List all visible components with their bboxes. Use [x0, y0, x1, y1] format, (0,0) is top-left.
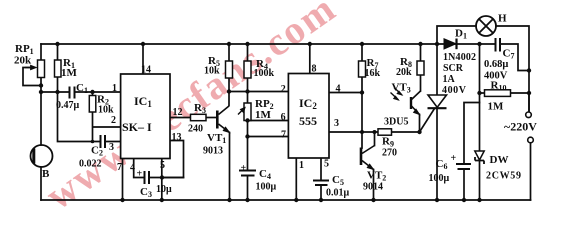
- wire: DW line from rail down: [479, 44, 481, 200]
- svg-text:7: 7: [117, 162, 122, 173]
- svg-text:240: 240: [188, 124, 203, 135]
- wire: C1 right to IC1 pin1: [75, 91, 121, 93]
- wire: R1 drop from rail: [57, 44, 59, 60]
- svg-text:~220V: ~220V: [504, 120, 537, 134]
- transistor VT2: [361, 146, 375, 170]
- svg-text:SK– I: SK– I: [122, 120, 152, 134]
- wire: VT2 emitter vertical to ground: [373, 170, 375, 201]
- transistor VT1: [217, 106, 229, 133]
- wire: RP1 wiper L-link: [23, 68, 41, 86]
- svg-text:0.01μ: 0.01μ: [326, 188, 350, 199]
- capacitor C3: [145, 171, 150, 184]
- resistor R1: [55, 60, 62, 77]
- wire: IC2 pin6 line: [248, 120, 289, 122]
- potentiometer RP2: [244, 103, 251, 121]
- svg-text:+: +: [137, 169, 143, 180]
- wire: IC1 pin13 loop to C3 node: [162, 141, 184, 178]
- wire: bottom ground rail: [41, 199, 531, 201]
- svg-text:555: 555: [299, 114, 317, 128]
- svg-text:0.022: 0.022: [79, 159, 102, 170]
- wire: IC1 pin5 down to C3 node and ground: [161, 159, 163, 201]
- wire: lamp right to down line: [496, 26, 529, 112]
- svg-text:5: 5: [160, 160, 165, 171]
- wire: R9 right to gate node: [392, 131, 420, 133]
- SCR V: [428, 95, 447, 108]
- wire: VT1 emitter down to ground: [229, 133, 231, 201]
- wire: SCR gate lead: [420, 109, 435, 133]
- resistor R3: [191, 114, 207, 120]
- svg-text:16k: 16k: [365, 68, 381, 79]
- capacitor C6: [456, 164, 471, 169]
- mains terminal upper: [526, 112, 532, 118]
- wire: IC2 pin4 to R7 line: [329, 92, 362, 94]
- svg-text:+: +: [241, 163, 247, 174]
- phototransistor VT3: [391, 88, 421, 115]
- svg-text:270: 270: [382, 148, 397, 159]
- wire: IC2 pin7 line: [248, 136, 289, 138]
- svg-text:100μ: 100μ: [429, 173, 450, 184]
- svg-text:1M: 1M: [488, 101, 505, 113]
- svg-text:SCR: SCR: [443, 63, 464, 74]
- IC2 box: [288, 74, 329, 159]
- resistor R9: [378, 129, 392, 135]
- wire: R8 drop from rail: [420, 44, 422, 61]
- wire: SCR cathode to ground: [436, 108, 438, 200]
- svg-text:7: 7: [281, 130, 286, 141]
- wire: top supply rail: [41, 43, 496, 45]
- svg-text:1N4002: 1N4002: [443, 52, 476, 63]
- wire: R8 bottom to VT3: [420, 75, 422, 91]
- wire: RP1 bottom lead down to mic node: [40, 78, 42, 146]
- wire: SCR anode from rail: [436, 44, 438, 95]
- svg-text:12: 12: [173, 107, 183, 118]
- svg-text:100μ: 100μ: [256, 182, 277, 193]
- svg-text:5: 5: [324, 159, 329, 170]
- svg-text:9013: 9013: [203, 146, 223, 157]
- wire: IC1 pin12 to R3: [170, 117, 191, 119]
- lamp H: [476, 16, 496, 36]
- wire: IC2 pin1 to ground: [295, 158, 297, 200]
- svg-text:20k: 20k: [14, 55, 32, 67]
- IC1 box: [121, 74, 170, 159]
- light arrows into VT3: [394, 88, 402, 96]
- svg-text:3DU5: 3DU5: [384, 117, 408, 128]
- svg-text:+: +: [451, 153, 457, 164]
- svg-text:0.47μ: 0.47μ: [56, 100, 80, 111]
- wire: rail right of C7 with dogleg down to lamp line: [500, 44, 529, 71]
- svg-text:20k: 20k: [396, 67, 412, 78]
- wire: RP1 top lead from rail corner: [40, 44, 42, 60]
- resistor R10: [485, 90, 511, 97]
- svg-text:8: 8: [312, 64, 317, 75]
- potentiometer RP1: [38, 60, 45, 78]
- wire: branch from signal node down to C2 line: [58, 92, 101, 142]
- wire: VT3 emitter down to gate node: [419, 115, 421, 133]
- wire: IC2 pin8 from rail: [309, 44, 311, 74]
- svg-text:10k: 10k: [98, 105, 114, 116]
- wire: IC2 pin5 through C5 to ground: [320, 158, 322, 200]
- wire: mic bottom lead to ground rail: [40, 167, 42, 200]
- wire: R1 bottom to signal line: [57, 77, 59, 92]
- wire: R7 line rail to VT2 base: [361, 44, 363, 148]
- wire: lamp branch up and across: [437, 26, 476, 44]
- wire: C6 bottom to ground: [463, 169, 465, 200]
- capacitor C4: [239, 171, 256, 176]
- capacitor C5: [313, 181, 329, 186]
- svg-text:100k: 100k: [254, 68, 275, 79]
- wire: C6 tap from DW line: [464, 103, 480, 165]
- capacitor C1: [70, 87, 75, 99]
- wire: R2 bottom to IC1 pin2 and down to C2 line: [93, 112, 121, 142]
- svg-text:3: 3: [109, 142, 114, 153]
- wire: IC1 pin4 down to C3 left: [134, 159, 145, 178]
- resistor R4: [244, 61, 251, 78]
- resistor R8: [417, 61, 424, 75]
- svg-text:0.68μ: 0.68μ: [484, 59, 508, 70]
- wire: upper mains terminal lead: [528, 93, 530, 112]
- svg-text:4: 4: [130, 163, 135, 174]
- wire: lower mains terminal to ground rail: [530, 143, 532, 200]
- svg-text:1M: 1M: [61, 67, 78, 79]
- svg-text:13: 13: [172, 132, 182, 143]
- diode D1: [444, 39, 457, 50]
- wire: R10 line: [480, 92, 530, 94]
- wire: VT2 collector vertical: [374, 132, 376, 146]
- svg-text:10k: 10k: [204, 66, 220, 77]
- svg-text:6: 6: [281, 112, 286, 123]
- svg-text:2: 2: [111, 115, 116, 126]
- resistor R7: [359, 61, 366, 77]
- RP2 wiper arrow: [238, 107, 245, 114]
- svg-text:2CW59: 2CW59: [486, 171, 521, 182]
- mains terminal lower: [528, 137, 534, 143]
- svg-text:B: B: [42, 168, 50, 180]
- svg-text:400V: 400V: [442, 85, 467, 96]
- svg-text:1M: 1M: [255, 109, 272, 121]
- zener DW 2CW59: [475, 151, 484, 164]
- capacitor C2: [101, 135, 106, 148]
- svg-text:2: 2: [281, 84, 286, 95]
- wire: IC1 pin7 to ground: [122, 159, 124, 201]
- svg-text:3: 3: [334, 118, 339, 129]
- resistor R5: [226, 61, 233, 78]
- wire: signal line mic to C1: [41, 91, 70, 93]
- resistor R2: [89, 96, 96, 113]
- svg-text:1A: 1A: [443, 74, 456, 85]
- svg-text:9014: 9014: [363, 182, 383, 193]
- wire: pin2 line VT1 collector to IC2: [229, 91, 288, 93]
- RP1 wiper arrow: [25, 65, 37, 70]
- wire: R2 top lead: [92, 92, 94, 96]
- svg-text:1: 1: [112, 83, 117, 94]
- microphone B: [31, 145, 53, 167]
- wire: C3 right lead: [149, 177, 184, 179]
- wire: R3 to VT1 base: [206, 117, 216, 119]
- svg-text:14: 14: [141, 65, 151, 76]
- wire: R5 bottom to VT1 collector: [228, 78, 230, 106]
- svg-text:H: H: [498, 13, 507, 25]
- svg-text:10μ: 10μ: [156, 184, 172, 195]
- capacitor C7: [496, 38, 501, 52]
- svg-text:DW: DW: [490, 154, 509, 166]
- svg-text:1: 1: [299, 160, 304, 171]
- wire: R4 chain vertical: [247, 44, 249, 200]
- wire: C2 right to IC1 pin3: [105, 141, 121, 143]
- svg-text:4: 4: [336, 84, 341, 95]
- wire: IC2 pin3 to R9: [329, 131, 378, 133]
- wire: IC1 pin14 from rail: [142, 44, 144, 74]
- wire: R5 drop from rail: [228, 44, 230, 61]
